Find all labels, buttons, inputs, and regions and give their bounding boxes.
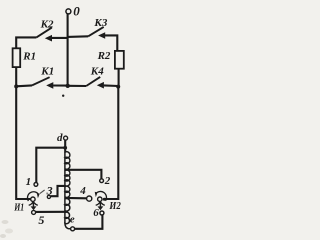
selector I1 wiper (32, 201, 34, 206)
blade (88, 27, 104, 36)
wire terminal 6 to e (75, 215, 103, 229)
svg-text:2: 2 (104, 175, 111, 187)
svg-text:И1: И1 (13, 202, 24, 214)
terminal 4 (87, 196, 92, 201)
terminal 6 (100, 211, 104, 215)
svg-text:1: 1 (26, 176, 32, 188)
terminal 3 (47, 195, 50, 198)
selector I2 rotation arrow (95, 191, 106, 200)
switch K1 (16, 77, 67, 89)
selector I1 rotation arrow (27, 192, 38, 201)
stray dot (62, 95, 64, 97)
svg-text:К3: К3 (93, 17, 107, 29)
switch K4 (68, 77, 119, 89)
svg-text:R1: R1 (22, 50, 36, 62)
wire right rail (104, 87, 118, 199)
stub to node (52, 37, 68, 39)
selector I1 circle (31, 197, 35, 201)
wire terminal 5 to winding (36, 211, 65, 213)
blade (32, 77, 50, 85)
terminal 0 (66, 9, 71, 14)
terminal 2 (100, 179, 104, 183)
terminal d (64, 136, 68, 140)
wire tap to terminal 4 (65, 197, 86, 200)
terminal 1 (34, 183, 38, 187)
svg-text:6: 6 (93, 207, 99, 219)
switch K3 (68, 27, 118, 51)
svg-text:d: d (57, 132, 63, 144)
blade (86, 77, 100, 86)
node dot K4 right (116, 85, 120, 89)
wire lead from node (68, 35, 89, 38)
arrowhead (46, 82, 53, 89)
wire tap to terminal 3 (51, 186, 65, 196)
smudge marks (2, 220, 9, 224)
stub to right rail (105, 35, 117, 51)
terminal 5 (32, 210, 36, 214)
resistor R1 (13, 48, 21, 67)
arrowhead (97, 82, 104, 89)
stub to right node (104, 84, 119, 87)
switch K2 (16, 28, 67, 49)
wire R2 bottom to K4 node (118, 69, 120, 87)
svg-text:К1: К1 (40, 65, 54, 77)
wire d to junction (64, 140, 66, 152)
wire 0 to top node (67, 14, 69, 37)
wire lead from R1 top (16, 37, 36, 48)
resistor R2 (115, 51, 124, 69)
svg-text:0: 0 (73, 4, 80, 19)
wire tap to terminal 2 (65, 170, 102, 179)
svg-text:4: 4 (79, 185, 86, 197)
wire center vertical node to node (67, 37, 69, 86)
node dot d junction (63, 146, 67, 150)
terminal e (71, 227, 75, 231)
wire left rail (16, 86, 31, 199)
selector I2 circle (98, 197, 102, 201)
arrowhead (98, 32, 105, 39)
node dot center (66, 84, 70, 88)
blade (36, 28, 52, 38)
selector I2 wiper (99, 201, 101, 206)
svg-text:И2: И2 (109, 200, 122, 212)
svg-text:3: 3 (46, 184, 53, 198)
arrowhead (45, 35, 52, 42)
svg-text:e: e (70, 214, 75, 226)
wire lead from left node (16, 84, 32, 87)
node dot I2 wire (103, 198, 106, 201)
inductor winding d-e (64, 152, 66, 223)
wire lead from center node (68, 85, 87, 87)
wire R1 bottom to K1 node (15, 67, 17, 86)
svg-text:R2: R2 (97, 50, 111, 62)
svg-text:К2: К2 (40, 18, 54, 30)
stub to center node (53, 84, 68, 86)
wire d junction to terminal 1 (36, 148, 65, 183)
svg-text:К4: К4 (90, 65, 104, 77)
svg-text:5: 5 (38, 213, 44, 227)
node dot K1 left (14, 84, 18, 88)
